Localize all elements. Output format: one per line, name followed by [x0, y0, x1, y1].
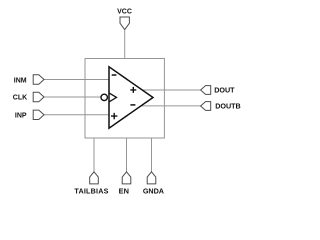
wire VCC to block	[124, 30, 126, 59]
svg-text:DOUTB: DOUTB	[215, 102, 241, 111]
svg-text:TAILBIAS: TAILBIAS	[74, 186, 108, 195]
svg-text:VCC: VCC	[117, 9, 132, 16]
pin EN	[122, 172, 131, 184]
comparator U1 triangle	[109, 67, 153, 128]
clock bubble	[101, 94, 107, 100]
svg-text:INM: INM	[14, 77, 27, 84]
pin DOUTB	[201, 102, 211, 111]
clock wedge	[109, 93, 117, 102]
wire DOUTB	[141, 105, 201, 107]
pin DOUT	[201, 86, 211, 95]
pin INM	[33, 75, 44, 84]
pin CLK	[33, 92, 44, 101]
pin GNDA	[147, 172, 156, 184]
output mark -	[130, 104, 135, 106]
wire INP	[44, 114, 109, 116]
svg-text:INP: INP	[15, 112, 27, 119]
svg-text:DOUT: DOUT	[214, 86, 235, 95]
pin VCC	[120, 17, 129, 30]
wire CLK	[44, 96, 101, 98]
svg-text:GNDA: GNDA	[143, 186, 164, 195]
wire TAILBIAS	[93, 138, 95, 172]
output mark +	[130, 87, 136, 93]
non-inverting input mark +	[111, 113, 117, 119]
svg-text:EN: EN	[119, 186, 129, 195]
inverting input mark -	[112, 74, 117, 76]
pin TAILBIAS	[90, 172, 99, 184]
block outline	[85, 59, 164, 139]
wire EN	[126, 138, 128, 172]
pin INP	[33, 110, 44, 119]
wire GNDA	[151, 138, 153, 172]
wire INM	[44, 79, 109, 81]
wire DOUT	[142, 89, 200, 91]
svg-text:CLK: CLK	[13, 94, 27, 101]
